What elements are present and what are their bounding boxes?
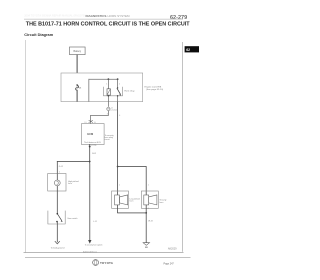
engine room R/B label	[145, 85, 164, 91]
svg-text:1: 1	[59, 171, 60, 173]
svg-text:B–R: B–R	[92, 153, 96, 155]
svg-text:ECM: ECM	[87, 132, 93, 136]
svg-text:To body ground: To body ground	[51, 247, 65, 249]
wire switch bottom to box bottom	[116, 96, 119, 102]
svg-text:To security horn system: To security horn system	[85, 244, 103, 247]
junction to right branch	[117, 166, 119, 168]
chapter tab 62	[185, 46, 199, 52]
svg-text:Horn switch: Horn switch	[68, 217, 78, 220]
security horn box	[141, 191, 158, 208]
svg-text:TOYOTA: TOYOTA	[100, 261, 114, 265]
wire merge down to ground	[145, 213, 148, 243]
low pitched horn symbol	[115, 195, 128, 205]
battery box	[70, 47, 86, 55]
svg-text:DIAGNOSTICS: DIAGNOSTICS	[86, 14, 107, 18]
horn (high pitched) box	[48, 174, 66, 192]
svg-text:(See page 62-10): (See page 62-10)	[146, 89, 163, 91]
wire horn to switch	[56, 191, 59, 214]
wire low horn down	[116, 205, 119, 213]
svg-text:62-279: 62-279	[170, 15, 187, 21]
svg-text:1: 1	[148, 184, 149, 186]
svg-text:1: 1	[106, 83, 107, 85]
wire theft box down	[88, 144, 91, 164]
svg-text:horn: horn	[160, 201, 164, 204]
svg-text:Battery: Battery	[74, 50, 82, 53]
svg-text:Engine room R/B: Engine room R/B	[145, 85, 162, 88]
horn relay coil	[107, 89, 110, 95]
wire merge horizontal	[117, 212, 146, 215]
horn switch bracket	[48, 211, 65, 224]
page frame left border	[24, 40, 27, 252]
wire battery to relay block	[77, 55, 78, 73]
security horn symbol	[144, 195, 157, 205]
horn symbol circle	[54, 180, 60, 186]
low pitched horn box	[112, 191, 129, 208]
connector 1J on coil wire	[107, 107, 110, 110]
ground arrow (open)	[55, 241, 60, 244]
page frame bottom border	[24, 251, 184, 254]
wire relay switch output down	[116, 102, 119, 168]
connector 1J text	[110, 107, 117, 111]
node dot coil bottom at bracket	[108, 95, 110, 97]
svg-text:– HORN SYSTEM: – HORN SYSTEM	[105, 14, 130, 18]
wire security horn down to merge	[145, 205, 148, 213]
svg-text:circuit: circuit	[105, 138, 110, 141]
wire right branch horizontal	[118, 165, 147, 168]
wire horizontal to horn	[57, 160, 90, 163]
node dot below theft box	[89, 146, 91, 148]
wire coil bottom to box bottom	[107, 95, 110, 102]
horn relay bracket	[104, 87, 123, 96]
theft deterrent ECU box	[82, 124, 105, 145]
node dot coil top	[108, 78, 110, 80]
wire down to horn box	[56, 161, 59, 173]
security horn label	[160, 199, 167, 204]
wire relay left drop x88.5	[88, 79, 91, 102]
wire left branch down to low horn	[116, 167, 119, 196]
svg-text:2: 2	[148, 208, 149, 210]
node dot switch top	[117, 78, 119, 80]
footer rule	[25, 256, 191, 259]
wire coil out below R/B	[107, 102, 110, 107]
header running text DIAGNOSTICS - HORN SYSTEM	[86, 14, 131, 18]
node dot merge	[145, 212, 147, 214]
wire switch to ground arrow	[56, 222, 59, 243]
wire theft junction down to security horn system	[88, 164, 91, 240]
ground symbol EB	[143, 243, 149, 250]
bowtie connector IE	[84, 119, 96, 124]
svg-text:horn: horn	[68, 182, 72, 185]
node dot switch bottom at bracket	[117, 95, 119, 97]
header rule	[24, 18, 183, 21]
svg-text:Circuit Diagram: Circuit Diagram	[24, 32, 54, 37]
horn label	[68, 180, 79, 185]
fuse HORN (inside R/B on battery wire)	[76, 84, 79, 102]
svg-text:2: 2	[119, 83, 120, 85]
svg-text:Page 247: Page 247	[164, 262, 175, 265]
wire relay feed (top horizontal inside R/B)	[89, 78, 118, 81]
wire down into bowtie connector	[89, 115, 92, 119]
svg-text:THE B1017-71 HORN CONTROL CIRC: THE B1017-71 HORN CONTROL CIRCUIT IS THE…	[26, 22, 190, 28]
svg-text:horn: horn	[130, 200, 134, 203]
svg-text:A0B254E8C01: A0B254E8C01	[83, 250, 98, 253]
wire jog left to theft ecu	[90, 114, 108, 117]
theft box bottom text	[84, 141, 102, 146]
svg-text:G–R: G–R	[59, 166, 64, 168]
low pitched horn label	[130, 197, 140, 202]
svg-text:Horn relay: Horn relay	[124, 89, 135, 92]
svg-text:2004 TOYOTA SIENNA REPAIR MANU: 2004 TOYOTA SIENNA REPAIR MANUAL (RM1075…	[24, 14, 87, 18]
engine room R/B box	[61, 73, 143, 102]
page frame right border	[181, 42, 184, 252]
wire coil top stub	[107, 79, 110, 89]
svg-text:L–R: L–R	[93, 221, 97, 223]
wire switch top stub	[116, 79, 119, 87]
svg-text:junction: junction	[110, 109, 117, 112]
horn relay switch arm	[117, 87, 121, 95]
svg-text:62: 62	[186, 48, 190, 52]
horn switch contacts and arm	[56, 213, 62, 223]
label to the right of theft box	[105, 134, 114, 141]
arrowhead to security horn system	[88, 240, 91, 244]
svg-text:4: 4	[119, 115, 120, 117]
wire right branch down	[145, 166, 148, 195]
svg-text:A82029: A82029	[168, 248, 177, 251]
horn feed junction	[89, 161, 91, 163]
svg-text:1: 1	[119, 184, 120, 186]
wire through horn box	[56, 174, 59, 192]
wire coil connector to jog	[107, 111, 110, 116]
footer toyota logo	[93, 259, 99, 265]
svg-text:W–B: W–B	[148, 220, 153, 222]
